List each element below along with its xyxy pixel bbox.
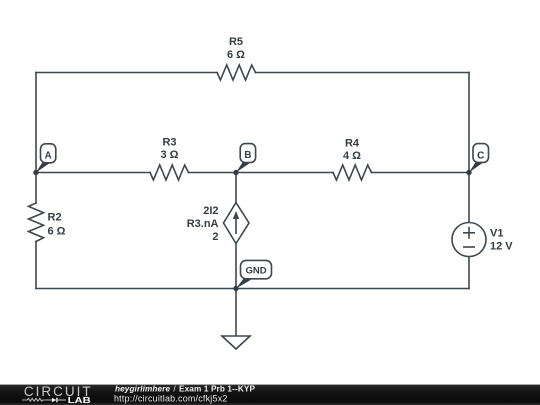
node GND flag xyxy=(236,260,272,288)
V1 minus sign xyxy=(463,246,475,248)
node GND junction dot xyxy=(233,286,238,291)
R3 value label xyxy=(161,137,179,162)
node B flag xyxy=(236,144,256,173)
svg-text:6 Ω: 6 Ω xyxy=(48,226,66,238)
svg-text:A: A xyxy=(44,151,51,162)
svg-text:heygirlimhere: heygirlimhere xyxy=(115,384,170,393)
wire top right segment xyxy=(256,72,470,74)
wire A to R3 xyxy=(36,172,150,174)
wire GND stem xyxy=(235,289,237,337)
current source value label xyxy=(187,205,219,243)
V1 plus sign xyxy=(463,227,475,239)
svg-text:Exam 1 Prb 1--KYP: Exam 1 Prb 1--KYP xyxy=(179,384,256,393)
wire top-left vertical (A to top) xyxy=(35,73,37,173)
node A flag xyxy=(36,144,56,173)
resistor R5 xyxy=(217,65,256,80)
R2 value label xyxy=(48,212,66,238)
wire bottom xyxy=(36,288,469,290)
svg-text:C: C xyxy=(477,150,484,161)
wire C to V1 xyxy=(468,173,470,223)
svg-text:http://circuitlab.com/cfkj5x2: http://circuitlab.com/cfkj5x2 xyxy=(114,394,227,404)
wire B to current source xyxy=(235,173,237,203)
ground symbol xyxy=(222,336,250,349)
voltage source V1 xyxy=(452,223,486,257)
R5 value label xyxy=(227,36,245,61)
svg-text:V1: V1 xyxy=(490,228,503,240)
resistor R2 xyxy=(29,203,44,242)
current source I1 (dependent, diamond) xyxy=(224,203,250,244)
svg-text:2: 2 xyxy=(212,231,218,243)
svg-text:12 V: 12 V xyxy=(490,241,513,253)
svg-text:R2: R2 xyxy=(48,212,62,224)
footer title text xyxy=(115,384,256,393)
footer bar xyxy=(0,385,540,405)
resistor R3 xyxy=(150,165,189,180)
node A junction dot xyxy=(33,170,38,175)
svg-text:4 Ω: 4 Ω xyxy=(343,150,361,162)
wire top-right vertical (top to C) xyxy=(468,73,470,173)
svg-text:LAB: LAB xyxy=(68,395,91,405)
svg-text:R3.nA: R3.nA xyxy=(187,218,219,230)
wire A to R2 xyxy=(35,173,37,204)
CircuitLab logo resistor-diode glyph xyxy=(22,398,52,401)
current source arrow xyxy=(233,211,239,234)
svg-text:GND: GND xyxy=(245,266,266,277)
wire R2 to bottom xyxy=(35,242,37,289)
node C junction dot xyxy=(466,170,471,175)
wire R3 to B xyxy=(189,172,237,174)
wire top left segment xyxy=(36,72,217,74)
wire current source to bottom xyxy=(235,244,237,289)
wire V1 to bottom xyxy=(468,257,470,289)
wire R4 to C xyxy=(372,172,470,174)
V1 value label xyxy=(490,228,513,253)
wire B to R4 xyxy=(236,172,333,174)
svg-text:6 Ω: 6 Ω xyxy=(227,49,245,61)
R4 value label xyxy=(343,138,361,163)
node B junction dot xyxy=(233,170,238,175)
svg-text:2I2: 2I2 xyxy=(203,205,218,217)
svg-text:R3: R3 xyxy=(162,137,176,149)
svg-text:R4: R4 xyxy=(345,138,360,150)
node C flag xyxy=(469,144,489,173)
svg-text:R5: R5 xyxy=(229,36,243,48)
resistor R4 xyxy=(333,165,372,180)
svg-text:B: B xyxy=(244,150,251,161)
svg-text:3 Ω: 3 Ω xyxy=(161,149,179,161)
